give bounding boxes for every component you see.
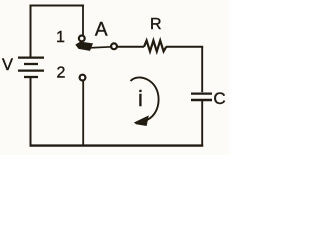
wire right rail lower — [201, 101, 203, 146]
svg-text:R: R — [150, 16, 162, 33]
wire pivot to resistor — [117, 46, 144, 48]
svg-text:A: A — [95, 19, 108, 40]
svg-text:V: V — [2, 56, 13, 74]
svg-text:i: i — [138, 86, 143, 111]
switch arm A — [75, 42, 111, 51]
current arrow i — [131, 77, 159, 126]
wire left rail lower — [30, 78, 32, 147]
svg-text:2: 2 — [57, 65, 66, 82]
switch contact 2 — [80, 75, 86, 81]
battery V — [18, 58, 44, 77]
wire resistor to top-right corner — [166, 46, 203, 48]
wire top rail — [30, 5, 85, 7]
wire from contact 2 down — [82, 81, 84, 146]
wire switch drop to contact 1 — [82, 5, 84, 36]
capacitor C — [191, 94, 212, 100]
svg-text:C: C — [213, 89, 225, 108]
switch pivot — [111, 43, 117, 49]
resistor R — [144, 41, 166, 52]
wire right rail upper — [201, 47, 203, 92]
wire left rail upper — [30, 5, 32, 57]
wire bottom rail — [30, 144, 204, 146]
switch contact 1 — [79, 36, 85, 42]
svg-text:1: 1 — [56, 29, 65, 46]
